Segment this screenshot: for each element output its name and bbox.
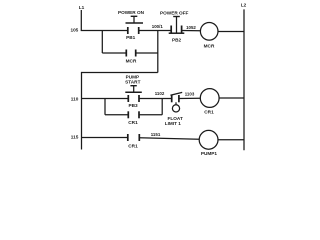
contact CR1 (NO seal-in) [128, 111, 139, 118]
svg-text:POWER ON: POWER ON [118, 10, 145, 15]
wire MCR branch left [102, 52, 126, 54]
wire rung1 right of PB2 [182, 30, 201, 32]
wire junction A drop [101, 31, 103, 54]
wire rung3 mid segment [139, 138, 199, 140]
svg-text:1151: 1151 [151, 132, 161, 137]
svg-text:CR1: CR1 [128, 143, 138, 148]
svg-text:PB1: PB1 [126, 35, 136, 40]
wire rung2 left segment [82, 98, 129, 100]
svg-text:MCR: MCR [204, 44, 215, 49]
svg-text:105: 105 [70, 27, 78, 32]
svg-text:PB3: PB3 [128, 103, 138, 108]
wire CR1 branch bottom right [139, 114, 162, 116]
wire feed to sub-rail [82, 72, 158, 74]
limit switch FLOAT LIMIT 1 (NC) [170, 92, 182, 112]
pushbutton PB2 (NC) [169, 17, 185, 34]
svg-text:L1: L1 [79, 5, 85, 10]
wire junction B riser [157, 31, 159, 73]
wire rung2 right segment [179, 97, 200, 99]
wire junction C drop [104, 99, 106, 115]
wire L2 rail [243, 9, 245, 150]
wire rung2 to L2 [219, 97, 244, 99]
pushbutton PB3 PUMP START label [125, 74, 140, 84]
contact CR1 rung3 (NO) [128, 134, 140, 141]
wire MCR branch right [136, 52, 158, 54]
coil PUMP1 [199, 130, 218, 149]
svg-text:L2: L2 [241, 3, 247, 8]
svg-text:100/1: 100/1 [152, 24, 164, 29]
wire CR1 branch riser [161, 99, 163, 115]
wire rung1 left segment [81, 30, 128, 32]
pushbutton PB1 (NO) [126, 16, 144, 34]
pushbutton PB3 (NO) [125, 86, 142, 102]
svg-text:START: START [125, 79, 140, 84]
wire sub-rail [81, 72, 83, 150]
svg-text:LIMIT 1: LIMIT 1 [165, 121, 182, 126]
wire rung3 to L2 [218, 139, 244, 141]
svg-text:CR1: CR1 [204, 109, 214, 114]
svg-text:MCR: MCR [126, 58, 137, 63]
svg-text:110: 110 [71, 96, 79, 101]
wire rung2 mid segment [139, 98, 171, 100]
coil CR1 [200, 89, 219, 108]
contact MCR (NO seal-in) [126, 50, 135, 57]
svg-text:PB2: PB2 [172, 37, 182, 42]
svg-text:1102: 1102 [155, 91, 165, 96]
wire L1 rail [80, 10, 82, 31]
wire rung1 mid segment [139, 30, 172, 32]
wire rung3 left segment [82, 137, 128, 139]
wire CR1 branch bottom left [105, 114, 128, 116]
wire rung1 to L2 [218, 31, 244, 33]
svg-text:1052: 1052 [186, 25, 196, 30]
svg-text:PUMP1: PUMP1 [201, 151, 218, 156]
coil MCR [200, 23, 218, 41]
svg-text:POWER OFF: POWER OFF [160, 11, 189, 16]
svg-text:CR1: CR1 [128, 120, 138, 125]
svg-text:115: 115 [71, 135, 79, 140]
limit switch FLOAT LIMIT 1 label [165, 116, 183, 126]
svg-text:1103: 1103 [185, 91, 195, 96]
